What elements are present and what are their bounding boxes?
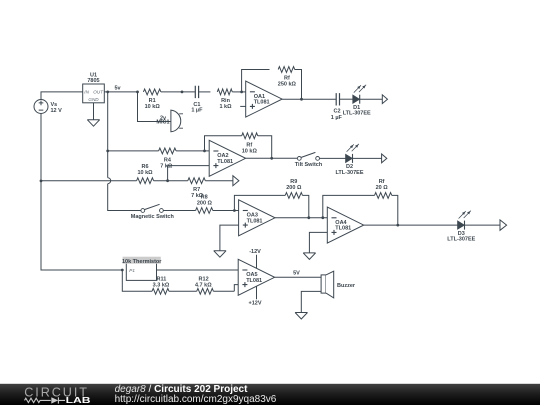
svg-text:LTL-307EE: LTL-307EE [447,237,475,243]
LED D2 [335,144,381,176]
svg-text:200 Ω: 200 Ω [197,200,213,206]
capacitor C1 [191,86,210,114]
supply +12V [249,286,262,306]
svg-text:TL081: TL081 [246,278,262,284]
feedback resistor Rf 20 [323,179,398,225]
svg-text:4.7 kΩ: 4.7 kΩ [195,282,212,288]
svg-text:5V: 5V [293,270,300,276]
output flag (R7) [233,176,239,186]
op-amp OA1 [240,81,282,117]
supply -12V [249,249,261,269]
wire thermistor to OA5 minus [157,269,239,271]
svg-text:TL081: TL081 [335,226,351,232]
svg-text:+12V: +12V [249,301,262,307]
tilt switch SW [295,152,346,168]
svg-text:10 kΩ: 10 kΩ [145,104,161,110]
svg-text:P1: P1 [129,268,135,273]
ground below buzzer [295,313,307,320]
thermistor P1 [122,257,162,281]
svg-text:LTL-307EE: LTL-307EE [335,170,363,176]
left input rail dot / middle wire [40,180,137,183]
LED D3 [447,211,500,243]
node 5v [104,91,137,93]
feedback resistor Rf 10k [203,133,272,158]
wire Vs top to U1 IN [41,92,83,100]
wire OA2 plus input from middle node [168,166,210,181]
svg-text:C2: C2 [333,109,340,115]
resistor Rin [217,89,245,110]
resistor R7 [188,178,233,199]
wire lower branch to R11 [122,270,152,291]
wire hop [108,178,111,184]
op-amp OA4 [327,207,363,243]
svg-text:LTL-307EE: LTL-307EE [343,111,371,117]
resistor R8 [196,194,239,213]
ground below OA3 [214,251,226,258]
op-amp OA2 [209,140,245,176]
svg-text:TL081: TL081 [217,159,233,165]
wire jog to OA5 plus [234,285,238,292]
voltage source Vs [34,100,62,115]
svg-text:200 Ω: 200 Ω [286,185,302,191]
svg-text:10 kΩ: 10 kΩ [137,170,153,176]
wire OA2 output [246,157,298,159]
svg-text:TL081: TL081 [254,100,270,106]
wire OA3 plus to ground [220,225,239,251]
magnetic switch [131,204,196,220]
output flag (D3 row) [500,220,507,230]
feedback resistor R9 [233,179,309,218]
wire buzzer bottom to ground [301,291,321,312]
svg-text:3.3 kΩ: 3.3 kΩ [153,282,170,288]
svg-text:5v: 5v [114,85,121,91]
svg-text:1 µF: 1 µF [331,115,343,121]
svg-text:Tilt Switch: Tilt Switch [295,162,323,168]
svg-text:GND: GND [88,97,99,102]
svg-text:-12V: -12V [249,249,261,255]
footer bar [0,384,540,405]
ground below OA4 [303,253,315,260]
svg-text:http://circuitlab.com/cm2gx9yq: http://circuitlab.com/cm2gx9yqa83v6 [115,394,277,405]
output flag (top row) [382,95,387,104]
resistor R6 [137,164,188,184]
svg-text:OUT: OUT [93,90,104,95]
LED D1 [343,85,383,117]
ground below U1 [93,103,95,120]
wire OA4 plus to ground [309,232,327,253]
op-amp OA3 [239,200,275,236]
wire OA3 output to OA4 minus [275,217,327,219]
svg-text:MIC1: MIC1 [156,120,169,126]
svg-text:R6: R6 [141,164,148,170]
resistor R12 [195,277,234,294]
svg-text:7 kΩ: 7 kΩ [160,164,173,170]
svg-text:1 µF: 1 µF [191,108,203,114]
svg-text:20 Ω: 20 Ω [376,185,389,191]
svg-text:IN: IN [84,90,89,95]
wire Vs bottom left rail down to thermistor [41,114,122,271]
svg-text:Magnetic Switch: Magnetic Switch [131,214,175,220]
resistor R1 [136,89,195,110]
svg-text:LAB: LAB [66,396,91,405]
microphone MIC1 [138,92,184,132]
resistor R4 [106,148,209,170]
svg-text:10k Thermistor: 10k Thermistor [122,259,162,265]
op-amp OA5 [238,259,274,295]
svg-text:1 kΩ: 1 kΩ [219,104,232,110]
buzzer SPK [321,271,356,298]
capacitor C2 [331,93,353,121]
wire 5v rail vertical with hop over middle wire [107,92,109,178]
svg-text:7805: 7805 [87,78,99,84]
svg-text:TL081: TL081 [247,218,263,224]
wire OA5 output 5V to buzzer [275,270,322,277]
CircuitLab logo: resistor+diode squiggle [25,397,66,403]
voltage regulator U1 7805 [83,72,105,103]
svg-text:Buzzer: Buzzer [337,283,356,289]
feedback resistor Rf 250k [240,67,301,100]
svg-text:250 kΩ: 250 kΩ [278,81,297,87]
wire OA4 output [364,224,458,226]
output flag (D2 row) [382,154,387,163]
svg-text:12 V: 12 V [51,108,63,114]
wire OA1 output [282,98,336,100]
resistor R11 [152,277,197,294]
svg-text:10 kΩ: 10 kΩ [242,148,258,154]
